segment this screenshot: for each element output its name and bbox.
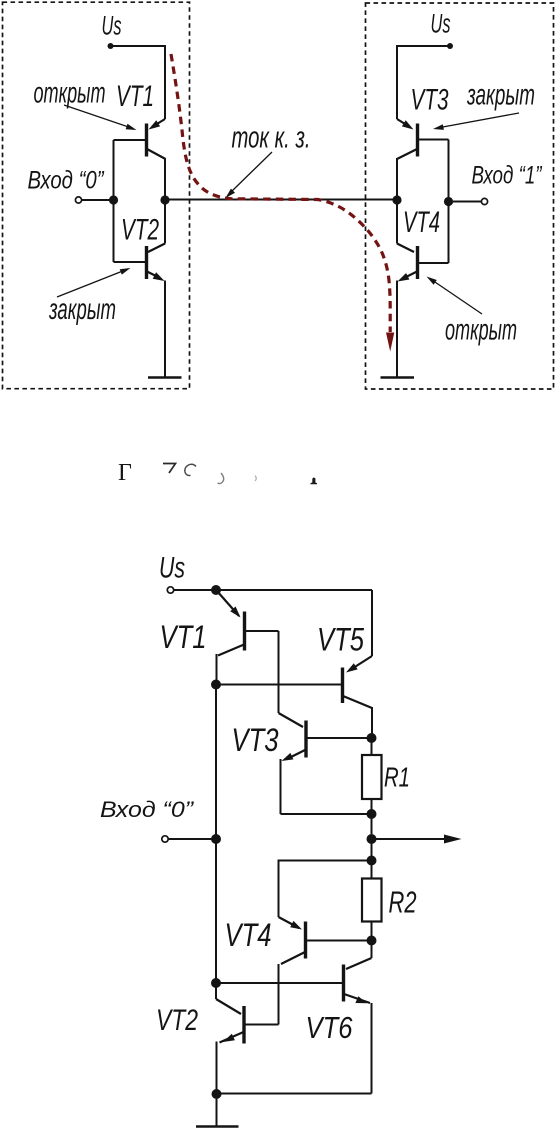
caption fragment С [185,464,196,475]
wire ground stem [216,1094,218,1126]
wire VT3 collector down [396,158,398,200]
transistor VT4 (NPN, bottom right) [397,200,449,377]
VT4 emitter arrow (into bar) [290,921,302,930]
transistor VT3 (bottom schematic, NPN) [279,713,372,814]
node junction dot collector bus [160,195,169,204]
wire Us down to VT3 emitter [396,45,398,119]
svg-text:Г: Г [118,460,132,486]
wire Us horizontal (left) [111,45,166,47]
VT3 emitter arrow (outward) [282,753,294,761]
svg-text:ток к. з.: ток к. з. [232,120,311,155]
short-circuit current dashed red path [171,54,390,332]
caption fragment 1 [311,478,318,485]
svg-text:R1: R1 [384,762,410,793]
wire VT1 collector to VT5 base [216,684,341,686]
input terminal circle (bottom) [162,836,168,842]
wire down to VT5 emitter [371,590,373,656]
VT5 emitter arrow (into bar) [346,663,358,672]
wire output [372,838,447,840]
svg-text:Вход “0”: Вход “0” [100,797,195,822]
input terminal circle (right) [481,198,487,204]
wire input to base bus (right) [449,201,482,203]
wire VT1 base down to VT3 collector [278,631,280,713]
VT1 emitter arrow (into bar) [149,120,161,129]
transistor VT1 (PNP, bottom schematic) [217,591,279,684]
node junction dot collector bus (right) [392,195,401,204]
svg-text:VT1: VT1 [116,80,154,113]
node dot VT2 collector / VT6 base [211,978,221,988]
transistor VT2 (NPN, bottom schematic) [216,983,279,1094]
wire VT3 base bus down [448,140,450,201]
node dot output [367,834,377,844]
wire VT4 collector down to VT2 base [278,964,280,1025]
svg-text:VT3: VT3 [411,84,449,117]
node dot Us / VT1 emitter [211,585,221,595]
wire Us down to VT1 emitter [164,45,166,119]
input terminal circle Us (bottom) [167,587,173,593]
wire interconnect between inverters [165,199,397,201]
svg-text:VT2: VT2 [156,1004,198,1037]
annotation arrow ток к.з. -> wire [231,152,272,192]
svg-text:VT5: VT5 [317,622,364,658]
node dot R2 bottom / VT4 base / VT6 collector [367,936,377,946]
svg-text:открыт: открыт [34,77,106,110]
wire input to base bus [82,199,114,201]
dashed enclosure box right [366,3,554,389]
svg-text:Us: Us [431,9,451,39]
svg-text:VT4: VT4 [403,206,440,239]
svg-text:VT2: VT2 [121,214,159,247]
resistor R2 [362,879,382,922]
input terminal circle (left) [75,197,81,203]
node junction dot base bus [109,195,118,204]
transistor VT2 (NPN, bottom left) [114,200,166,377]
wire input to bus [168,838,216,840]
VT1 emitter arrow (into bar) [230,607,240,618]
VT2 emitter arrow (outward) [153,272,165,281]
svg-text:Вход “1”: Вход “1” [472,162,543,190]
svg-text:VT1: VT1 [160,619,207,655]
node dot input bus [211,834,221,844]
ground (left) [148,376,182,379]
node Us terminal dot (right) [447,43,453,49]
node Us terminal dot (left) [108,43,114,49]
ground (bottom schematic) [196,1125,239,1128]
transistor VT1 (PNP, top left) [114,119,166,159]
caption fragment 7 [163,464,176,474]
transistor VT3 (PNP, top right) [397,119,449,159]
wire VT1 collector down [164,158,166,200]
wire VT1 base bus down [113,140,115,200]
annotation arrow закрыт -> VT2 [57,271,124,298]
caption fragment у [218,473,224,484]
svg-text:VT4: VT4 [225,917,272,953]
wire emitters to ground bus [217,1093,372,1095]
node dot R1 bottom / VT3 emitter [367,809,377,819]
svg-text:Us: Us [159,552,185,585]
annotation arrow открыт -> VT1 [64,105,130,128]
node dot VT4 emitter branch [367,856,377,866]
wire VT6 base [216,982,344,984]
node dot VT1 collector / VT5 base [211,680,221,690]
svg-text:Вход “0”: Вход “0” [28,167,105,195]
caption fragment dot [255,476,256,482]
VT4 emitter arrow (outward) [398,273,410,282]
node junction dot base bus (right) [444,197,453,206]
wire Us feed [174,589,372,591]
svg-text:R2: R2 [389,885,417,920]
wire input bus vertical [215,685,217,984]
VT2 emitter arrow (outward) [223,1034,235,1042]
dashed enclosure box left [3,2,190,389]
transistor VT5 (PNP) [343,656,373,738]
svg-text:Us: Us [102,11,122,41]
svg-text:VT6: VT6 [306,1010,354,1045]
VT3 emitter arrow (into bar) [402,120,414,129]
ground (right) [381,376,415,379]
output arrowhead [444,835,462,844]
resistor R1 [371,738,373,755]
annotation arrow закрыт -> VT3 [440,113,519,128]
annotation arrow открыт -> VT4 [432,280,482,314]
svg-text:закрыт: закрыт [466,79,535,112]
VT6 emitter arrow (outward) [355,996,367,1003]
transistor VT4 (PNP, bottom schematic) [279,917,372,964]
wire output node down [371,839,373,879]
node dot ground tap [212,1089,222,1099]
svg-text:закрыт: закрыт [48,293,116,326]
red current arrowhead [386,333,394,352]
wire Us horizontal (right) [397,45,450,47]
svg-text:VT3: VT3 [232,722,279,758]
wire VT4 emitter branch [279,861,372,918]
transistor VT6 (NPN) [344,941,372,1094]
svg-text:открыт: открыт [445,314,517,347]
node dot VT5 collector / R1 / VT3 base [367,733,377,743]
